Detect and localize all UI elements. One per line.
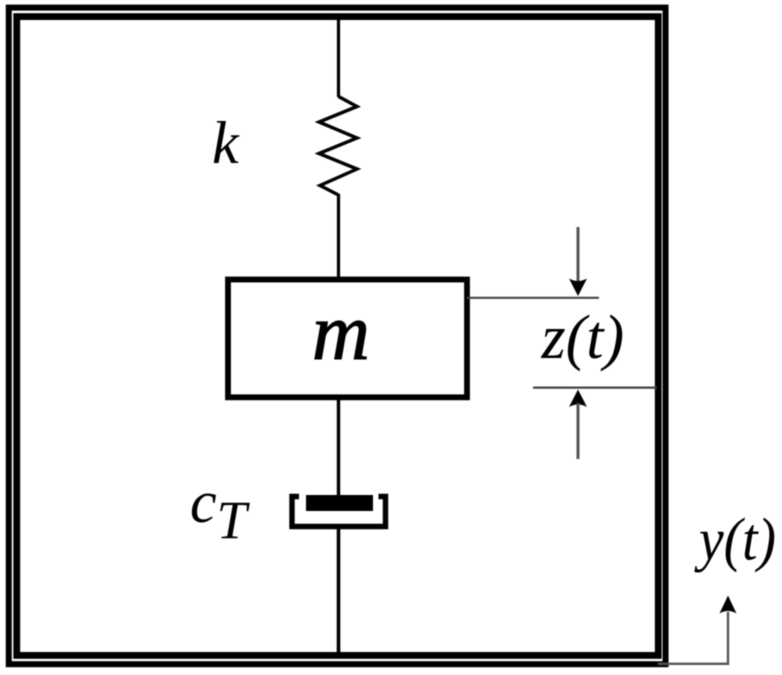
svg-text:y(t): y(t) xyxy=(693,507,776,573)
spring k xyxy=(319,97,357,196)
svg-text:k: k xyxy=(212,110,240,176)
z measurement: down arrow shaft xyxy=(577,227,580,283)
mass block m xyxy=(228,280,467,398)
wire from mass to damper piston xyxy=(337,397,340,500)
damper cup cT xyxy=(292,497,386,527)
outer case wall (inner line) xyxy=(17,17,659,656)
wire from damper to case bottom xyxy=(337,526,341,653)
z measurement: upper reference line from mass right edge xyxy=(467,297,599,299)
z measurement: down arrowhead xyxy=(569,279,587,297)
svg-text:z(t): z(t) xyxy=(541,304,625,372)
wire from case top to spring xyxy=(337,19,340,97)
z measurement: up arrowhead xyxy=(569,390,587,408)
svg-text:cT: cT xyxy=(190,469,251,550)
damper piston plate xyxy=(306,495,373,511)
y measurement: line from case bottom corner xyxy=(658,612,728,664)
z measurement: lower reference line to case wall xyxy=(533,387,657,389)
y measurement: up arrowhead xyxy=(720,596,737,614)
svg-text:m: m xyxy=(312,289,370,377)
z measurement: up arrow shaft xyxy=(577,403,580,459)
wire from spring to mass xyxy=(337,194,340,280)
